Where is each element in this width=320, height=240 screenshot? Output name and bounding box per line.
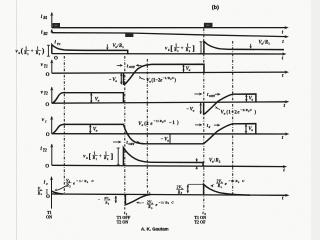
Va annotation vT2 left (90, 93, 100, 104)
2Vb/R3 fraction with arrow ic spike (176, 184, 203, 195)
trace iT1 second hump (204, 41, 284, 54)
label 2Vb/R3 e exp right ic (210, 179, 245, 189)
label t3 and switch text (194, 210, 206, 225)
pulse iB1 first (52, 23, 60, 28)
label T1 ON first (46, 210, 52, 220)
td annotation vc (195, 123, 220, 129)
axis ic (50, 176, 290, 208)
label Vb/R3 e fraction ic (54, 179, 94, 191)
label Va/R1 right with down arrow (249, 40, 270, 49)
time marker dashed line t0' x=64.3 (63, 56, 65, 193)
tOFF annotation vT2 (194, 93, 220, 99)
-Va annotation vT2 (186, 103, 202, 115)
right big label Vb[1/R1+1/R2] (165, 43, 195, 53)
tOFF annotation vT1 (117, 64, 142, 70)
axis vT1 (50, 59, 289, 73)
axis iB1 (50, 12, 289, 29)
time marker dashed line t1 x=124.8 (124, 56, 126, 210)
label Va/R2 with arrows iT2 (195, 157, 220, 169)
axis iB2 (50, 29, 289, 38)
left big label Vb(1/R1+1/R2) (16, 46, 45, 56)
Va annotation vT1 plateau (182, 64, 191, 72)
pulse iB2 negative (125, 33, 133, 37)
bracket arrow for peak 1 iT1 (47, 45, 50, 56)
trace ic initial bump (52, 191, 63, 194)
label Va(1-2e) vT2 (215, 106, 257, 116)
time marker dashed line t2 x=147.3 (146, 59, 148, 188)
label Va(1-2e) vT1 (139, 76, 177, 84)
big label vb[1/R1+1/R2] iT2 (83, 151, 113, 161)
bracket arrow for peak 2 iT1 (200, 42, 203, 54)
bracket arrow iT2 peak (117, 148, 120, 165)
axis iT1 (52, 52, 287, 55)
Va annotation vc right (245, 124, 254, 134)
label Va/R1 left with down arrow (106, 43, 124, 50)
time marker dashed line t3 x=203.8 (203, 29, 205, 211)
axis iT2 (50, 144, 287, 169)
trace vT2 (52, 93, 256, 114)
-2Vb/R3 fraction with arrow ic (98, 196, 117, 206)
-Va annotation vT1 (109, 73, 123, 85)
faint left page line (16, 0, 18, 240)
trace vc (52, 124, 256, 144)
paper noise overlay (0, 0, 1, 1)
trace ic second spike (204, 184, 250, 195)
Va annotation vT2 right (245, 94, 253, 102)
Va/R3 fraction left ic (37, 187, 48, 196)
page edge shading right (311, 0, 320, 240)
Va annotation vc left (89, 124, 98, 133)
tOFF annotation vc/iT2 (113, 141, 140, 147)
label Va(2e-1) vc (138, 119, 179, 127)
axis vc (50, 116, 289, 136)
label -2Vb/R3 e exp ic (136, 200, 174, 209)
trace iT1 first hump (52, 45, 128, 54)
pulse iB1 second (204, 23, 213, 28)
trace iT2 (123, 148, 203, 167)
trace vT1 (124, 64, 205, 84)
-Va annotation vc (161, 134, 170, 143)
label t1 and switch text (117, 210, 131, 225)
time marker dashed line t4 x=232.7 (232, 41, 234, 196)
axis vT2 (50, 87, 289, 104)
trace ic negative pulse and recovery (125, 194, 150, 205)
